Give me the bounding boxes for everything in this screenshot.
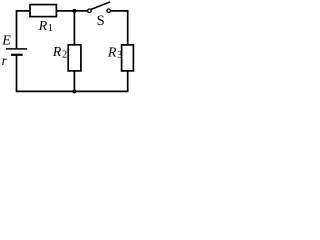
wire node A to R2 top <box>73 11 75 45</box>
svg-text:1: 1 <box>48 23 53 34</box>
wire R1 right to switch left contact <box>56 10 88 12</box>
resistor R2 <box>68 45 81 71</box>
battery E long plate <box>6 48 27 50</box>
switch S left contact <box>88 9 92 13</box>
wire top-left: battery top to top-left corner to R1 <box>17 11 31 49</box>
switch S lever <box>91 2 110 9</box>
node A junction dot (top) <box>72 9 76 13</box>
svg-text:2: 2 <box>62 50 67 61</box>
battery E short plate <box>11 54 23 56</box>
resistor R3 <box>122 45 134 71</box>
svg-text:R: R <box>38 19 48 34</box>
wire battery bottom to bottom-left corner <box>16 55 18 91</box>
wire bottom rail <box>16 90 129 92</box>
switch S right contact <box>107 9 111 13</box>
svg-text:R: R <box>52 45 62 60</box>
resistor R1 <box>30 5 56 17</box>
svg-text:R: R <box>107 46 117 61</box>
wire switch right contact to top-right corner down to R3 <box>110 11 127 45</box>
wire R2 bottom to bottom junction <box>73 71 75 92</box>
wire R3 bottom to bottom-right corner <box>127 71 129 92</box>
node B junction dot (bottom) <box>72 89 76 93</box>
svg-text:S: S <box>97 13 105 29</box>
svg-text:E: E <box>1 34 11 49</box>
svg-text:r: r <box>2 53 8 68</box>
svg-text:3: 3 <box>117 50 122 61</box>
